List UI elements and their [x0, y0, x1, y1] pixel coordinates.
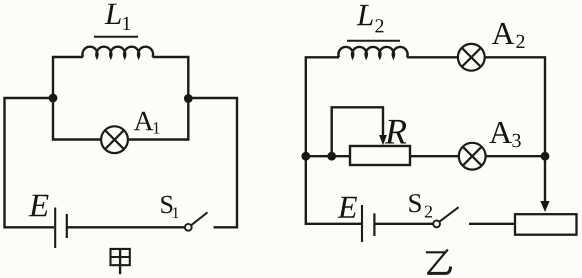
- lamp A2: [458, 44, 485, 71]
- label E2: [338, 197, 357, 218]
- node slider junction: [327, 152, 336, 161]
- label R: [385, 120, 407, 144]
- inductor L2: [338, 41, 407, 58]
- wire battery to switch S2: [374, 223, 433, 225]
- switch S2: [433, 207, 458, 227]
- label E1: [29, 195, 49, 217]
- lamp A1: [101, 126, 128, 153]
- rheostat R slider branch with arrow: [332, 107, 387, 156]
- wire A2 to right vertical: [485, 57, 545, 156]
- wire switch to right outer: [188, 98, 237, 227]
- node left junction: [49, 94, 58, 103]
- inductor L1: [82, 37, 153, 57]
- wire lamp branch right: [129, 98, 189, 140]
- label A1: [134, 112, 160, 134]
- rheostat (bottom right) body: [515, 214, 577, 235]
- label yi (乙): [426, 250, 451, 274]
- wire R to lamp A3: [410, 155, 458, 157]
- node right junction (Z): [541, 152, 550, 161]
- lamp A3: [459, 143, 486, 170]
- wire left outer: [5, 98, 55, 227]
- wire A3 to right junction: [486, 155, 545, 157]
- label A2: [492, 23, 525, 48]
- label S2: [409, 194, 432, 217]
- label S1: [161, 196, 178, 218]
- wire L1 right lead: [153, 57, 189, 98]
- label L1: [105, 4, 131, 30]
- label A3: [489, 122, 520, 147]
- wire L1 left lead: [53, 57, 83, 98]
- wire lamp branch left: [53, 98, 101, 140]
- wire arrow to bottom rheostat: [540, 156, 549, 212]
- switch S1: [185, 212, 208, 230]
- node right junction: [184, 94, 193, 103]
- wire L2 left lead and left outer: [306, 57, 362, 224]
- label jia (甲): [111, 249, 130, 274]
- battery E2: [362, 205, 374, 242]
- battery E1: [55, 208, 67, 249]
- wire switch S2 to rheostat: [469, 223, 515, 225]
- rheostat R body: [350, 146, 410, 165]
- wire L2 to lamp A2: [407, 56, 458, 58]
- wire left to rheostat R: [306, 155, 350, 157]
- label L2: [357, 5, 384, 33]
- wire battery to switch: [67, 226, 185, 228]
- node left junction (Y): [301, 152, 310, 161]
